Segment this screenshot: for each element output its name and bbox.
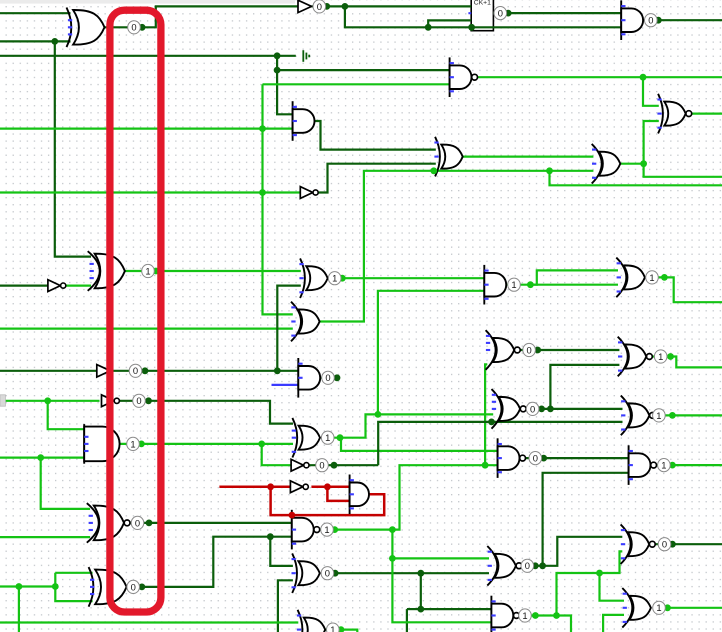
probe value 0	[313, 0, 326, 13]
wire net nork north	[543, 473, 630, 566]
XOR gate U11	[299, 258, 327, 298]
wire net or3 out	[620, 164, 722, 177]
probe value 1	[127, 437, 140, 450]
wire net orn out	[657, 607, 722, 609]
wire net nandv out	[656, 464, 722, 466]
wire net j3 riser	[391, 530, 393, 559]
NOR gate U28	[618, 337, 653, 377]
wire net xore out	[328, 414, 494, 437]
svg-text:0: 0	[525, 560, 530, 571]
wire net and1 out	[315, 121, 436, 150]
svg-text:0: 0	[325, 568, 330, 579]
wire junction	[145, 397, 152, 404]
wire junction	[539, 562, 546, 569]
wire net red main	[219, 486, 294, 489]
wire junction	[331, 462, 338, 469]
probe value 0	[128, 21, 141, 34]
wire net norh out	[130, 522, 293, 524]
wire junction	[258, 441, 265, 448]
wire net v262 top	[263, 83, 451, 85]
wire junction	[640, 160, 647, 167]
probe value 1	[646, 271, 659, 284]
svg-text:0: 0	[530, 403, 535, 414]
wire net gnd branch	[277, 69, 451, 71]
wire net row537	[0, 536, 90, 538]
wire net v262	[263, 84, 293, 314]
svg-text:1: 1	[656, 602, 661, 613]
svg-text:0: 0	[319, 460, 324, 471]
XOR gate U19	[292, 418, 320, 458]
wire net xori branch	[270, 537, 293, 566]
NOR gate U27	[486, 330, 521, 370]
wire junction	[540, 455, 547, 462]
svg-text:1: 1	[511, 279, 516, 290]
wire net red drop	[327, 487, 351, 501]
probe value 1	[519, 609, 532, 622]
wire junction	[334, 374, 341, 381]
svg-text:1: 1	[656, 410, 661, 421]
wire junction	[430, 167, 437, 174]
wire net nandu out	[525, 457, 630, 459]
svg-text:0: 0	[648, 15, 653, 26]
wire net nork east	[543, 537, 623, 566]
wire junction	[389, 555, 396, 562]
svg-text:0: 0	[325, 372, 330, 383]
wire net xnor out	[691, 112, 722, 114]
probe value 0	[526, 402, 539, 415]
probe value 0	[316, 459, 329, 472]
wire net norq feed	[485, 364, 487, 465]
NOR gate U33	[487, 546, 522, 586]
svg-text:1: 1	[330, 624, 335, 632]
wire net orb out	[320, 171, 594, 322]
wire net row128	[0, 128, 294, 130]
wire junction	[527, 281, 534, 288]
probe value 0	[131, 516, 144, 529]
wire net row622	[0, 621, 298, 623]
NOT gate U21	[291, 459, 309, 471]
wire net norm out	[655, 543, 722, 545]
wire net red loop	[271, 487, 385, 515]
wire junction	[139, 24, 146, 31]
wire junction	[669, 412, 676, 419]
probe value 1	[653, 601, 666, 614]
wire net a1 branch	[55, 41, 91, 256]
wire junction	[538, 406, 545, 413]
probe value 0	[523, 343, 536, 356]
wire net red stub	[291, 515, 294, 518]
wire junction	[289, 512, 296, 519]
wire junction	[488, 419, 495, 426]
wire junction	[44, 397, 51, 404]
OR gate U13	[616, 258, 645, 298]
NAND gate U3	[450, 57, 478, 97]
wire net nandp north	[557, 551, 623, 615]
probe value 0	[658, 538, 671, 551]
wire junction	[468, 24, 475, 31]
svg-text:0: 0	[131, 22, 136, 33]
probe value 1	[653, 409, 666, 422]
wire junction	[259, 125, 266, 132]
wire net notc in	[0, 285, 49, 287]
wire junction	[146, 520, 153, 527]
XOR gate U6	[434, 137, 462, 177]
probe value 0	[133, 394, 146, 407]
wire net buf2 out	[110, 370, 299, 372]
wire junction	[51, 38, 58, 45]
wire net buf2 north	[277, 286, 301, 371]
wire net nork out	[522, 565, 543, 567]
wire junction	[655, 17, 662, 24]
wire net xorw edge	[406, 609, 408, 632]
wire junction	[553, 612, 560, 619]
XOR gate U23	[89, 567, 127, 607]
probe value 1	[654, 350, 667, 363]
wire net row457 drop	[41, 458, 90, 509]
NAND gate U35	[491, 596, 519, 632]
wire net buf1 south	[345, 6, 623, 27]
svg-text:1: 1	[649, 272, 654, 283]
wire net notc out	[66, 285, 91, 287]
wire net nandp out	[519, 614, 556, 616]
probe value 0	[494, 7, 507, 20]
wire net xor2 out	[463, 156, 594, 158]
probe value 0	[129, 364, 142, 377]
wire net nand1 out	[477, 76, 722, 78]
wire junction	[332, 570, 339, 577]
wire net v18	[18, 587, 20, 632]
wire net notf out	[309, 464, 378, 466]
wire junction	[547, 406, 554, 413]
wire net xore down	[378, 291, 486, 415]
wire junction	[667, 353, 674, 360]
OR gate U14	[291, 302, 320, 342]
AND gate U12	[484, 265, 506, 305]
wire junction	[274, 52, 281, 59]
OR gate U9	[88, 251, 125, 291]
wire net nork in2	[392, 557, 489, 559]
wire net orn in4	[603, 615, 624, 632]
wire junction	[417, 570, 424, 577]
NOT gate U17	[102, 395, 120, 407]
wire junction	[532, 612, 539, 619]
XOR gate U25	[292, 553, 320, 593]
AND gate U2	[621, 0, 643, 40]
wire junction	[153, 268, 160, 275]
wire net or4 out	[645, 277, 722, 302]
probe value 1	[658, 459, 671, 472]
NOT gate U10	[48, 280, 66, 292]
wire net andc stub	[320, 377, 337, 379]
OR gate U7	[592, 144, 621, 184]
wire net not1 out	[319, 164, 436, 193]
wire junction	[532, 562, 539, 569]
wire net row586	[0, 585, 55, 587]
wire net nors out	[526, 408, 623, 410]
svg-text:1: 1	[145, 265, 150, 276]
wire net gnd row	[0, 55, 296, 57]
wire junction	[664, 604, 671, 611]
wire junction	[259, 189, 266, 196]
probe value 0	[521, 559, 534, 572]
wire net andg drop	[262, 444, 293, 465]
wire net nandp east	[557, 616, 572, 632]
probe value 0	[645, 14, 658, 27]
wire junction	[425, 24, 432, 31]
wire net or3 north	[644, 121, 659, 164]
svg-text:0: 0	[662, 539, 667, 550]
wire net xorw west	[407, 608, 421, 610]
svg-text:1: 1	[324, 524, 329, 535]
svg-text:0: 0	[133, 365, 138, 376]
NOT gate U8	[300, 187, 318, 199]
wire junction	[505, 10, 512, 17]
wire junction	[16, 583, 23, 590]
wire junction	[267, 483, 274, 490]
wire net xori out	[127, 537, 294, 587]
NAND gate U24	[292, 510, 320, 550]
wire net xorw south	[421, 573, 493, 609]
wire net andg out	[120, 443, 293, 445]
wire net xormid out	[328, 277, 486, 279]
wire net and2 up	[530, 270, 618, 284]
probe value 0	[529, 452, 542, 465]
wire junction	[596, 570, 603, 577]
wire junction	[338, 626, 345, 632]
svg-text:0: 0	[135, 517, 140, 528]
wire junction	[142, 367, 149, 374]
wire net norq out	[520, 349, 619, 351]
wire net nandp in4	[392, 558, 492, 622]
wire junction	[375, 411, 382, 418]
AND gate U18	[298, 358, 320, 398]
input pin stub (clipped, left edge)	[0, 395, 5, 406]
wire net row457	[0, 457, 85, 459]
wire junction	[661, 274, 668, 281]
NOR gate U29	[492, 389, 527, 429]
svg-text:0: 0	[136, 395, 141, 406]
wire net xorbt out	[325, 630, 357, 632]
probe value 0	[321, 567, 334, 580]
AND gate U20	[84, 424, 119, 464]
wire net notd branch	[48, 401, 86, 429]
svg-text:1: 1	[522, 610, 527, 621]
wire junction	[482, 462, 489, 469]
red annotation rounded rectangle	[110, 10, 161, 612]
NOR gate U30	[621, 396, 656, 436]
wire net nors north	[550, 365, 619, 409]
wire net orn in2	[600, 573, 625, 601]
wire net nandj north	[392, 465, 499, 529]
XOR gate U1	[67, 8, 105, 48]
probe value 1	[142, 264, 155, 277]
svg-text:1: 1	[658, 351, 663, 362]
wire junction	[138, 441, 145, 448]
wire junction	[37, 454, 44, 461]
svg-text:0: 0	[533, 453, 538, 464]
wire net nand1 drop	[643, 77, 659, 106]
svg-text:0: 0	[131, 581, 136, 592]
window chrome strip (top edge)	[0, 0, 295, 4]
probe value 1	[328, 272, 341, 285]
wire net notd out	[120, 401, 293, 424]
probe value 1	[321, 523, 334, 536]
NAND gate U32	[629, 445, 657, 485]
buffer U15	[298, 0, 312, 12]
svg-text:0: 0	[317, 1, 322, 12]
wire junction	[337, 434, 344, 441]
XOR gate U26	[297, 610, 325, 632]
wire net xorw in4	[278, 580, 293, 632]
wire net xori u1	[55, 572, 92, 574]
wire net andtr out	[643, 19, 722, 21]
probe value 0	[322, 371, 335, 384]
probe value 1	[321, 431, 334, 444]
wire net norr out	[652, 357, 722, 368]
wire junction	[342, 3, 349, 10]
wire net nandj out	[320, 528, 393, 530]
wire net xori u2	[55, 573, 92, 601]
wire net row328	[0, 328, 293, 330]
wire junction	[534, 347, 541, 354]
wire net notf north	[378, 422, 622, 465]
wire net and2 out	[506, 284, 618, 286]
XNOR gate U4	[657, 94, 691, 134]
NAND gate U31	[498, 438, 526, 478]
probe value 1	[327, 623, 340, 632]
wire net xorw out	[335, 572, 489, 574]
wire junction	[669, 541, 676, 548]
wire junction	[52, 583, 59, 590]
wire junction	[331, 526, 338, 533]
wire junction	[389, 526, 396, 533]
wire net floating blue	[272, 384, 300, 386]
subcircuit box CK+1	[468, 0, 493, 31]
wire net buf1 out	[312, 5, 472, 7]
svg-text:0: 0	[526, 344, 531, 355]
wire junction	[669, 462, 676, 469]
svg-text:1: 1	[661, 460, 666, 471]
svg-text:CK+1: CK+1	[474, 0, 491, 7]
wire junction	[274, 67, 281, 74]
ground symbol GND	[303, 50, 309, 62]
wire net a0	[0, 12, 71, 14]
wire junction	[417, 606, 424, 613]
wire net orb branch	[550, 171, 722, 186]
svg-text:1: 1	[130, 438, 135, 449]
svg-text:1: 1	[332, 273, 337, 284]
wire junction	[339, 275, 346, 282]
wire net gnd drop	[277, 56, 293, 115]
wire net notd in	[0, 400, 100, 402]
wire net buf2 in	[0, 370, 98, 372]
wire net a1	[0, 40, 71, 42]
wire junction	[546, 167, 553, 174]
wire net box pin3	[428, 20, 471, 27]
wire junction	[323, 3, 330, 10]
wire junction	[274, 367, 281, 374]
wire junction	[139, 584, 146, 591]
wire junction	[640, 74, 647, 81]
wire net box out	[493, 12, 622, 14]
NOT gate U37	[290, 481, 308, 493]
probe value 0	[127, 580, 140, 593]
NOR gate U34	[621, 524, 656, 564]
AND gate U38	[350, 475, 369, 515]
wire net xore nandu	[341, 438, 499, 451]
OR gate U36	[622, 588, 651, 628]
AND gate U5	[293, 101, 315, 141]
NOR gate U22	[87, 503, 130, 543]
buffer U16	[97, 365, 111, 377]
wire junction	[267, 533, 274, 540]
wire net ora out	[125, 270, 301, 272]
wire net xor1 out	[105, 6, 299, 27]
svg-text:1: 1	[325, 432, 330, 443]
svg-text:0: 0	[498, 8, 503, 19]
wire junction	[324, 483, 331, 490]
probe value 1	[508, 278, 521, 291]
wire net row192	[0, 191, 302, 193]
wire net red notout	[311, 486, 351, 489]
wire net nort out	[655, 414, 722, 416]
